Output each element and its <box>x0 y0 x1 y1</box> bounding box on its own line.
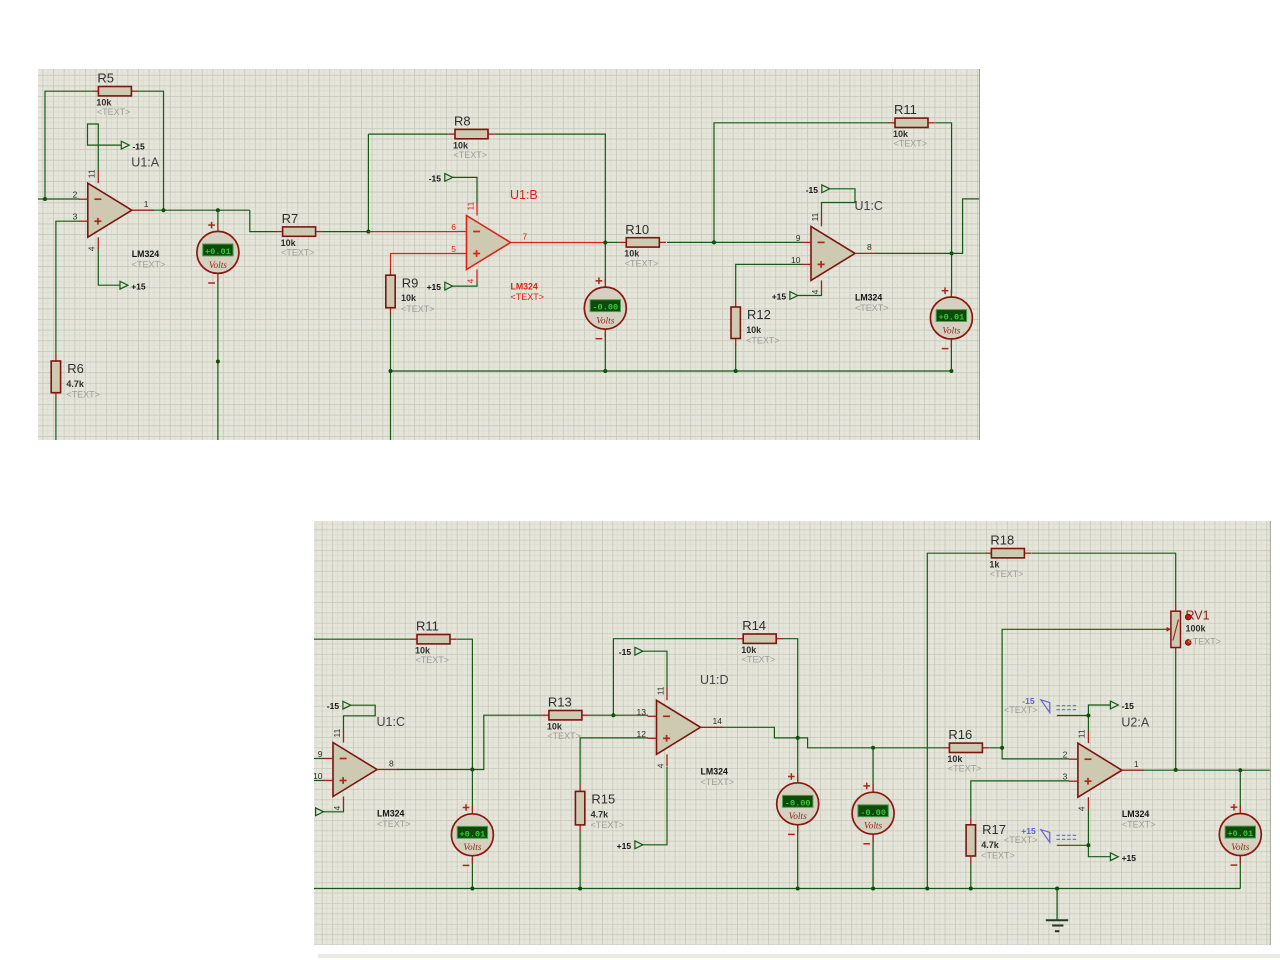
wire: input net to U1:A pin 2 (left edge) <box>38 198 79 200</box>
wire: R11 branch riser <box>714 122 888 242</box>
junction: rail / VM2 <box>603 368 607 372</box>
resistor R15 <box>575 784 624 832</box>
pin 12 (non-inverting) stub <box>648 737 657 739</box>
junction: output / voltmeter node <box>216 208 220 212</box>
resistor R16 <box>943 727 990 774</box>
wire: +15 link to U1:C pin 4 <box>323 809 343 812</box>
pin 13 (inverting) stub <box>648 715 657 717</box>
svg-text:10k: 10k <box>401 293 416 303</box>
svg-text:4.7k: 4.7k <box>66 378 84 388</box>
wire: net into U1:C pin 9 (left edge) <box>314 758 324 760</box>
svg-text:-15: -15 <box>132 141 145 151</box>
pin 1 (output) stub <box>132 209 154 211</box>
wire: U1:A pin11 loop to -15 terminal <box>87 124 121 172</box>
power terminal +15 (U1:D) <box>617 841 643 851</box>
svg-text:10k: 10k <box>415 645 431 655</box>
voltage source probe +15 <box>1004 826 1078 845</box>
svg-text:<TEXT>: <TEXT> <box>893 138 926 148</box>
svg-text:1: 1 <box>1134 759 1139 769</box>
svg-text:<TEXT>: <TEXT> <box>1004 835 1038 845</box>
svg-text:U1:A: U1:A <box>131 155 159 169</box>
svg-text:10k: 10k <box>281 237 296 247</box>
svg-text:-0.00: -0.00 <box>785 798 811 808</box>
junction: rail / VM5 <box>796 887 800 891</box>
wire: -15 link to U1:D pin 11 <box>643 651 667 689</box>
svg-text:<TEXT>: <TEXT> <box>132 259 165 269</box>
svg-text:<TEXT>: <TEXT> <box>1122 820 1156 830</box>
svg-text:10: 10 <box>314 771 323 781</box>
wire: VM2 bottom to rail <box>604 332 606 370</box>
wire: U1:A pin4 to +15 terminal <box>98 247 120 285</box>
resistor R9 <box>386 268 435 314</box>
svg-text:4: 4 <box>810 289 820 294</box>
voltmeter VM7 <box>1219 804 1261 865</box>
svg-text:LM324: LM324 <box>132 249 159 259</box>
op-amp U1:D <box>637 673 734 787</box>
screenshot border (right edge) <box>979 69 981 440</box>
wire: node rises to R13 <box>472 715 542 769</box>
wire: bottom common rail <box>314 888 1240 890</box>
wire: R17 riser to U2:A pin 3 <box>971 781 1069 818</box>
pin 7 (output) stub <box>510 241 532 243</box>
svg-text:100k: 100k <box>1186 624 1207 634</box>
wire: U1:B output (selected) to node <box>530 241 605 243</box>
power terminal -15 (U1:A) <box>121 141 145 151</box>
wire: node to R10 <box>605 241 619 243</box>
wire: -15 terminal link to U2:A pin 11 <box>1088 705 1110 732</box>
wire: R18 right drop to RV1 <box>1032 553 1176 604</box>
svg-text:1: 1 <box>144 199 149 209</box>
junction: output / R5 node <box>161 208 165 212</box>
wire: +15 probe link <box>1057 844 1089 846</box>
svg-text:3: 3 <box>73 211 78 221</box>
svg-text:<TEXT>: <TEXT> <box>981 851 1015 861</box>
power terminal +15 (U1:A) <box>120 281 146 291</box>
svg-text:RV1: RV1 <box>1186 609 1210 623</box>
wire: R8 left horizontal <box>368 133 448 135</box>
op-amp U1:A <box>73 155 166 269</box>
svg-text:10k: 10k <box>947 754 963 764</box>
pin 11 (V+) stub <box>343 731 345 743</box>
wire: node down to voltmeter VM7 <box>1239 770 1241 812</box>
svg-text:10k: 10k <box>746 324 761 334</box>
svg-text:LM324: LM324 <box>510 281 537 291</box>
svg-text:<TEXT>: <TEXT> <box>746 335 779 345</box>
resistor R6 <box>51 353 100 399</box>
pin 1 (output) stub <box>1122 769 1144 771</box>
junction: R7 / R8 / pin6 node <box>366 229 370 233</box>
pin 4 (V-) stub <box>820 280 822 292</box>
svg-text:9: 9 <box>318 749 323 759</box>
voltmeter VM5 <box>777 773 819 834</box>
svg-text:<TEXT>: <TEXT> <box>1188 636 1222 646</box>
svg-text:<TEXT>: <TEXT> <box>625 258 658 268</box>
wire: U1:A pin3 to R6 <box>56 221 79 354</box>
wire: +15 link to U1:D pin 4 <box>643 767 667 845</box>
resistor R10 <box>619 221 666 267</box>
svg-text:11: 11 <box>465 201 475 210</box>
wire: R13 to pin13 node <box>589 714 614 716</box>
svg-text:<TEXT>: <TEXT> <box>1004 705 1038 715</box>
wire: VM6 bottom to rail <box>872 835 874 889</box>
power terminal -15 (U2:A) <box>1110 701 1134 711</box>
wire: staircase continues to VM6 node <box>798 738 873 748</box>
junction: pin4 / probe node <box>1086 843 1090 847</box>
wire: selected net U1:B pin5 to R9 <box>390 253 457 268</box>
svg-text:<TEXT>: <TEXT> <box>948 764 982 774</box>
pin 10 (non-inverting) stub <box>324 780 333 782</box>
pin 6 (inverting) stub <box>457 230 466 232</box>
wire: +15 link to U1:C pin 4 <box>798 291 822 295</box>
wire: +15 terminal to U1:B pin 4 <box>453 281 477 286</box>
svg-text:-0.00: -0.00 <box>592 302 618 312</box>
voltmeter VM4 <box>451 804 493 865</box>
svg-text:4: 4 <box>655 763 665 768</box>
junction: rail / R12 <box>734 368 738 372</box>
screenshot border (right edge, bottom image) <box>1269 521 1271 945</box>
junction: U1:B output node <box>603 240 607 244</box>
junction: stray node on VM1 branch <box>216 359 220 363</box>
pin 9 (inverting) stub <box>802 241 811 243</box>
svg-text:5: 5 <box>451 244 456 254</box>
wire: R18 left branch down to rail <box>927 553 984 888</box>
wire: VM4 bottom to rail <box>471 858 473 889</box>
svg-text:8: 8 <box>389 758 394 768</box>
junction: rail / ground <box>1055 887 1059 891</box>
svg-text:R11: R11 <box>416 619 439 634</box>
svg-text:11: 11 <box>1077 729 1087 738</box>
op-amp U2:A <box>1063 716 1156 830</box>
svg-text:R12: R12 <box>747 307 771 322</box>
svg-text:R15: R15 <box>591 792 615 807</box>
pin 11 (V+) stub <box>666 688 668 700</box>
wire: U1:C output to node <box>875 252 952 254</box>
svg-text:4: 4 <box>87 246 97 251</box>
svg-text:R8: R8 <box>454 113 471 128</box>
wire: U1:D output staircase <box>721 727 798 738</box>
potentiometer RV1 <box>1163 605 1221 655</box>
op-amp U1:C <box>791 198 888 312</box>
svg-text:+0.01: +0.01 <box>205 247 231 257</box>
wire: bottom common rail <box>390 369 951 371</box>
svg-text:<TEXT>: <TEXT> <box>453 150 486 160</box>
svg-text:R11: R11 <box>894 102 917 117</box>
pin 10 (non-inverting) stub <box>802 263 811 265</box>
wire: R14 branch riser <box>613 639 736 716</box>
svg-text:13: 13 <box>637 707 647 717</box>
wire: VM5 bottom to rail <box>797 826 799 889</box>
svg-text:4: 4 <box>332 806 342 811</box>
wire: R12 bottom to rail <box>735 344 737 370</box>
svg-text:11: 11 <box>810 212 820 221</box>
wire: R6 bottom to edge <box>55 399 57 440</box>
wire: output step to right edge <box>952 198 980 252</box>
svg-text:11: 11 <box>332 728 342 737</box>
pin 9 (inverting) stub <box>324 758 333 760</box>
svg-text:10: 10 <box>791 254 801 264</box>
wire: R8 right to output node <box>495 134 605 242</box>
power terminal +15 (U2:A) <box>1110 853 1136 863</box>
wire: R17 bottom to rail <box>970 863 972 889</box>
wire: R8 left branch down to pin6 node <box>367 134 369 231</box>
wire: R5 right lead to output node <box>138 91 163 210</box>
pin 11 (V+) stub <box>476 203 478 215</box>
wire: -15 link to U1:C pin 11 <box>344 705 376 731</box>
svg-text:10k: 10k <box>547 721 563 731</box>
voltmeter VM6 <box>852 783 894 844</box>
wire: R16 to wiper node with jog to U2:A pin 2 <box>989 748 1069 759</box>
pin 14 (output) stub <box>701 726 723 728</box>
wire: R11 right drop to U1:C output <box>457 639 472 769</box>
power terminal +15 (U1:C, clipped) <box>316 808 324 816</box>
pin 4 (V-) stub <box>476 269 478 281</box>
junction: output / RV1 node <box>1174 768 1178 772</box>
svg-text:4: 4 <box>1077 806 1087 811</box>
svg-text:U1:D: U1:D <box>700 673 728 687</box>
svg-text:R13: R13 <box>548 695 572 710</box>
wire: R7 to U1:B pin6 node <box>322 230 369 232</box>
faint strip along bottom <box>318 954 1280 958</box>
pin 5 (non-inverting) stub <box>457 252 466 254</box>
wire: R11 right to output node <box>935 122 951 253</box>
svg-text:+15: +15 <box>1122 853 1137 863</box>
wire: R14 right drop to output staircase <box>783 639 798 738</box>
svg-text:4.7k: 4.7k <box>981 840 1000 850</box>
wire: R12 riser to U1:C pin 10 <box>736 264 803 300</box>
svg-text:-15: -15 <box>1122 701 1135 711</box>
pin 11 (V+) stub <box>97 171 99 183</box>
wire: voltmeter VM1 to bottom edge <box>217 279 219 440</box>
junction: rail / VM3 <box>949 368 953 372</box>
svg-text:R14: R14 <box>742 618 766 633</box>
wire: R9 branch to bottom edge <box>389 370 391 439</box>
svg-text:9: 9 <box>796 232 801 242</box>
junction: rail / R9 <box>388 368 392 372</box>
junction: output / VM7 node <box>1238 768 1242 772</box>
wire: net into R11 from left edge <box>314 638 411 640</box>
svg-text:4: 4 <box>465 278 475 283</box>
pin 3 (non-inverting) stub <box>79 220 88 222</box>
svg-text:+15: +15 <box>617 841 632 851</box>
wire: net into U1:C pin 10 (left edge) <box>314 780 324 782</box>
svg-text:Volts: Volts <box>789 812 807 822</box>
op-amp U1:B <box>451 188 544 302</box>
svg-text:2: 2 <box>1063 750 1068 760</box>
svg-text:<TEXT>: <TEXT> <box>281 247 314 257</box>
wire: -15 probe link <box>1057 715 1089 717</box>
svg-text:-15: -15 <box>806 184 819 194</box>
svg-text:<TEXT>: <TEXT> <box>377 819 411 829</box>
wire: node to U1:C pin 9 <box>714 241 802 243</box>
svg-text:+0.01: +0.01 <box>1227 829 1253 839</box>
wire: R10 to pin9 node <box>667 241 714 243</box>
wire: R5 feedback loop left branch <box>45 91 91 199</box>
resistor R14 <box>736 618 783 665</box>
svg-text:11: 11 <box>87 169 97 178</box>
wire: R15 riser to U1:D pin 12 <box>580 738 648 785</box>
wire: node down to voltmeter VM4 <box>471 770 473 811</box>
svg-text:R6: R6 <box>67 361 84 376</box>
junction: node at pin2 / R5 branch <box>43 197 47 201</box>
resistor R8 <box>448 113 495 159</box>
svg-text:Volts: Volts <box>864 822 882 832</box>
svg-text:R7: R7 <box>282 211 299 226</box>
resistor R7 <box>276 211 323 257</box>
wire: U2:A output net <box>1142 769 1271 771</box>
wire: U1:A output net <box>151 209 250 211</box>
resistor R11 <box>888 102 935 148</box>
RV1 wiper arrow <box>1163 628 1169 630</box>
pin 3 (non-inverting) stub <box>1069 780 1078 782</box>
ground <box>1046 889 1068 932</box>
svg-text:+15: +15 <box>131 281 146 291</box>
svg-text:6: 6 <box>451 222 456 232</box>
svg-text:10k: 10k <box>96 97 111 107</box>
svg-text:10k: 10k <box>453 140 468 150</box>
svg-text:+15: +15 <box>427 282 442 292</box>
pin 11 (V+) stub <box>820 214 822 226</box>
svg-text:12: 12 <box>637 729 647 739</box>
wire: R15 bottom to rail <box>579 832 581 889</box>
wire: +15 terminal link to U2:A pin 4 <box>1088 809 1110 857</box>
power terminal -15 (U1:C) <box>806 184 830 194</box>
pin 2 (inverting) stub <box>79 198 88 200</box>
svg-text:R18: R18 <box>990 533 1014 548</box>
schematic screenshot 1 (top) <box>38 69 980 441</box>
svg-text:<TEXT>: <TEXT> <box>855 302 888 312</box>
wire: wiper riser <box>1002 629 1163 748</box>
voltmeter VM1 <box>197 221 239 282</box>
svg-text:<TEXT>: <TEXT> <box>742 655 776 665</box>
schematic screenshot 2 (bottom) <box>314 521 1271 945</box>
svg-text:Volts: Volts <box>942 326 960 336</box>
svg-text:-0.00: -0.00 <box>860 808 886 818</box>
pin 4 (V-) stub <box>666 754 668 766</box>
junction: U1:C output node <box>950 251 954 255</box>
pin 2 (inverting) stub <box>1069 758 1078 760</box>
wire: RV1 bottom to output net <box>1175 654 1177 770</box>
RV1 adjust buttons <box>1185 614 1191 620</box>
svg-text:R5: R5 <box>97 70 114 85</box>
svg-text:R9: R9 <box>402 275 419 290</box>
pin 8 (output) stub <box>855 252 877 254</box>
svg-text:<TEXT>: <TEXT> <box>547 731 581 741</box>
svg-text:<TEXT>: <TEXT> <box>591 820 625 830</box>
resistor R12 <box>731 299 780 345</box>
svg-text:2: 2 <box>73 189 78 199</box>
wire: node down to voltmeter VM6 <box>872 748 874 798</box>
resistor R13 <box>542 695 589 742</box>
pin 8 (output) stub <box>377 769 399 771</box>
pin 4 (V-) stub <box>343 797 345 809</box>
wire: node to U1:D pin 13 <box>613 714 648 716</box>
svg-text:-15: -15 <box>429 173 442 183</box>
svg-text:8: 8 <box>867 242 872 252</box>
svg-text:Volts: Volts <box>596 316 614 326</box>
resistor R17 <box>966 818 1015 863</box>
svg-text:<TEXT>: <TEXT> <box>66 389 99 399</box>
wire: R9 bottom to ground rail <box>389 314 391 370</box>
resistor R18 <box>985 533 1032 580</box>
svg-text:LM324: LM324 <box>1122 809 1149 819</box>
svg-text:10k: 10k <box>893 129 908 139</box>
junction: VM6 node <box>871 746 875 750</box>
junction: output / R11 / VM4 node <box>470 768 474 772</box>
voltage source probe -15 <box>1004 696 1078 715</box>
pin 11 (V+) stub <box>1087 731 1089 743</box>
svg-text:LM324: LM324 <box>377 809 404 819</box>
wire: VM7 bottom to rail <box>1239 857 1241 889</box>
svg-text:10k: 10k <box>624 248 639 258</box>
wire: -15 terminal to U1:B pin 11 <box>453 177 477 203</box>
wire: selected net into U1:B pin 6 <box>368 230 457 232</box>
svg-text:-15: -15 <box>619 647 632 657</box>
junction: rail / R18 branch <box>925 887 929 891</box>
voltmeter VM3 <box>930 287 972 348</box>
junction: R13 / R14 / pin13 node <box>611 713 615 717</box>
pin 4 (V-) stub <box>97 237 99 249</box>
junction: pin11 / probe node <box>1086 714 1090 718</box>
junction: rail / VM6 <box>871 887 875 891</box>
svg-text:Volts: Volts <box>463 843 481 853</box>
svg-text:14: 14 <box>713 716 723 726</box>
svg-text:1k: 1k <box>989 559 1000 569</box>
svg-text:U1:C: U1:C <box>377 715 405 729</box>
svg-text:7: 7 <box>522 231 527 241</box>
svg-text:<TEXT>: <TEXT> <box>701 777 735 787</box>
wire: output to R7 <box>250 210 276 231</box>
wire: VM3 bottom to rail <box>950 341 952 370</box>
svg-text:U1:C: U1:C <box>854 198 882 212</box>
svg-text:+15: +15 <box>772 291 787 301</box>
svg-text:-15: -15 <box>327 701 340 711</box>
junction: R14 / staircase / VM5 node <box>796 736 800 740</box>
power terminal -15 (U1:C) <box>327 701 351 711</box>
junction: rail / R15 <box>578 887 582 891</box>
svg-text:<TEXT>: <TEXT> <box>416 655 450 665</box>
junction: rail / R17 <box>969 887 973 891</box>
svg-text:<TEXT>: <TEXT> <box>401 303 434 313</box>
junction: rail / VM4 <box>470 887 474 891</box>
svg-text:R16: R16 <box>948 727 972 742</box>
wire: output node down to voltmeter VM1 <box>217 210 219 225</box>
voltmeter VM2 <box>584 277 626 338</box>
wire: node to R16 <box>873 747 943 749</box>
resistor R5 <box>92 70 139 116</box>
svg-text:<TEXT>: <TEXT> <box>97 107 130 117</box>
svg-text:LM324: LM324 <box>855 292 882 302</box>
op-amp U1:C <box>313 715 410 829</box>
wire: U1:C output to voltmeter node <box>397 769 472 771</box>
power terminal +15 (U1:B) <box>427 282 453 292</box>
wire: node down to voltmeter VM5 <box>797 738 799 789</box>
svg-text:<TEXT>: <TEXT> <box>990 569 1024 579</box>
svg-text:4.7k: 4.7k <box>591 809 610 819</box>
power terminal -15 (U1:B) <box>429 173 453 183</box>
wire: -15 Z-link to U1:C pin 11 <box>821 188 854 214</box>
svg-text:R10: R10 <box>625 221 649 236</box>
svg-text:+0.01: +0.01 <box>939 312 965 322</box>
svg-text:U1:B: U1:B <box>510 188 538 202</box>
svg-text:U2:A: U2:A <box>1121 716 1149 730</box>
svg-text:11: 11 <box>655 686 665 695</box>
svg-text:R17: R17 <box>982 822 1006 837</box>
svg-text:10k: 10k <box>741 645 757 655</box>
pin 4 (V-) stub <box>1087 797 1089 809</box>
power terminal +15 (U1:C) <box>772 291 798 301</box>
power terminal -15 (U1:D) <box>619 647 643 657</box>
svg-text:LM324: LM324 <box>701 766 728 776</box>
